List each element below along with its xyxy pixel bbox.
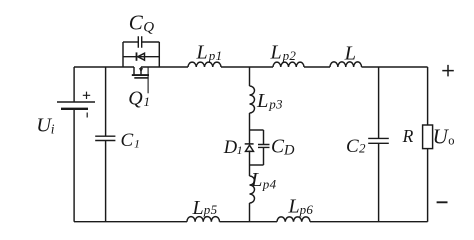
label Ui bbox=[36, 114, 55, 136]
svg-text:1: 1 bbox=[144, 94, 151, 109]
svg-text:C: C bbox=[121, 130, 134, 151]
voltage source Ui minus tick bbox=[86, 113, 88, 118]
output plus mark bbox=[442, 65, 454, 77]
svg-text:U: U bbox=[433, 125, 450, 149]
inductor Lp4 bbox=[250, 176, 255, 203]
capacitor CQ loop right post bbox=[158, 42, 160, 67]
wire right branch (output) bbox=[427, 67, 429, 222]
voltage source Ui battery long plate bbox=[57, 101, 95, 103]
label Lp6 bbox=[288, 196, 314, 218]
svg-text:Q: Q bbox=[128, 87, 143, 109]
label Lp2 bbox=[270, 41, 297, 63]
label CD bbox=[271, 136, 295, 158]
svg-text:C: C bbox=[129, 10, 144, 34]
label Lp4 bbox=[250, 169, 277, 192]
inductor Lp6 bbox=[277, 217, 310, 222]
svg-text:o: o bbox=[448, 134, 454, 148]
wire middle branch D1 to Lp4 bbox=[249, 151, 251, 176]
capacitor CQ top bar right bbox=[142, 41, 160, 43]
output minus mark bbox=[437, 201, 448, 203]
label R bbox=[402, 126, 414, 146]
wire top rail left segment (Ui+ to Q1 drain) bbox=[74, 66, 134, 68]
diode D1 triangle bbox=[246, 145, 254, 151]
transistor Q1 gate bar bbox=[134, 77, 148, 79]
svg-text:L: L bbox=[270, 41, 282, 63]
inductor Lp1 bbox=[188, 62, 221, 67]
wire left branch above battery bbox=[73, 67, 75, 102]
wire top rail Q1 source to Lp1 bbox=[141, 66, 188, 68]
svg-text:p1: p1 bbox=[208, 48, 223, 63]
capacitor CD loop top bar bbox=[250, 129, 264, 131]
svg-text:i: i bbox=[51, 121, 55, 136]
wire middle branch top bbox=[249, 67, 251, 86]
wire bottom rail Lp5 to left corner bbox=[74, 221, 187, 223]
svg-text:p6: p6 bbox=[299, 202, 314, 217]
capacitor CD plates bbox=[258, 145, 270, 148]
svg-text:L: L bbox=[196, 41, 208, 63]
capacitor CQ loop left post bbox=[122, 42, 124, 67]
label Lp5 bbox=[192, 197, 218, 219]
transistor Q1 channel bar bbox=[132, 74, 149, 76]
svg-text:p3: p3 bbox=[268, 96, 283, 111]
label D1 bbox=[223, 138, 243, 158]
inductor Lp2 bbox=[273, 62, 304, 67]
resistor R box bbox=[423, 125, 433, 149]
svg-text:2: 2 bbox=[359, 141, 366, 156]
svg-text:Q: Q bbox=[143, 19, 154, 35]
label Uo bbox=[433, 125, 455, 149]
label Lp1 bbox=[196, 41, 223, 63]
svg-text:L: L bbox=[344, 43, 356, 65]
transistor Q1 body arrow bbox=[140, 67, 142, 75]
wire C1 branch upper bbox=[105, 67, 107, 136]
wire C1 branch lower bbox=[105, 141, 107, 222]
label CQ bbox=[129, 10, 154, 35]
label C2 bbox=[346, 136, 366, 157]
label L bbox=[344, 43, 356, 65]
voltage source Ui battery short plate bbox=[61, 108, 88, 110]
capacitor CQ top bar left bbox=[123, 41, 138, 43]
transistor Q1 source contact and gate lead bbox=[147, 67, 149, 93]
transistor Q1 body arrowhead bbox=[139, 68, 143, 72]
svg-text:C: C bbox=[346, 136, 359, 157]
wire middle branch bottom bbox=[249, 203, 251, 222]
body diode of Q1 (cathode bar and triangle) bbox=[136, 52, 138, 60]
label Lp3 bbox=[256, 90, 283, 112]
inductor Lp5 bbox=[187, 217, 220, 222]
svg-text:R: R bbox=[402, 126, 414, 146]
voltage source Ui plus mark bbox=[83, 92, 90, 99]
svg-text:1: 1 bbox=[134, 136, 140, 150]
wire C2 branch lower bbox=[378, 143, 380, 221]
svg-text:p4: p4 bbox=[262, 177, 277, 192]
wire top rail Lp1 to Lp2 (node at middle branch) bbox=[221, 66, 273, 68]
label C1 bbox=[121, 130, 141, 151]
capacitor CQ plates bbox=[138, 36, 141, 48]
svg-text:p5: p5 bbox=[203, 202, 218, 217]
label Q1 bbox=[128, 87, 150, 109]
svg-text:L: L bbox=[288, 196, 300, 218]
capacitor CD loop bottom bar bbox=[250, 164, 264, 166]
wire left branch below battery bbox=[73, 109, 75, 222]
svg-text:C: C bbox=[271, 136, 285, 157]
wire C2 branch upper bbox=[378, 67, 380, 138]
svg-text:1: 1 bbox=[237, 143, 243, 157]
wire top rail Lp2 to L bbox=[304, 66, 330, 68]
svg-text:D: D bbox=[283, 143, 295, 159]
wire body-diode bar bbox=[123, 56, 159, 58]
diode D1 cathode bar bbox=[245, 143, 254, 145]
svg-text:L: L bbox=[250, 169, 262, 191]
svg-text:p2: p2 bbox=[282, 48, 297, 63]
capacitor CD loop right upper bbox=[263, 130, 265, 145]
capacitor C1 plates bbox=[95, 136, 115, 140]
svg-text:L: L bbox=[256, 90, 268, 112]
inductor Lp3 bbox=[250, 86, 255, 113]
wire middle branch Lp3 to D1 bbox=[249, 113, 251, 144]
capacitor CD loop right lower bbox=[263, 147, 265, 165]
svg-text:L: L bbox=[192, 197, 204, 219]
wire bottom rail Lp6 to middle branch bbox=[220, 221, 278, 223]
svg-text:D: D bbox=[223, 138, 238, 158]
wire top rail L to right corner bbox=[362, 66, 428, 68]
inductor L bbox=[330, 62, 362, 67]
transistor Q1 drain contact bbox=[133, 67, 135, 75]
capacitor C2 plates bbox=[368, 138, 389, 143]
wire bottom rail right segment bbox=[310, 221, 428, 223]
